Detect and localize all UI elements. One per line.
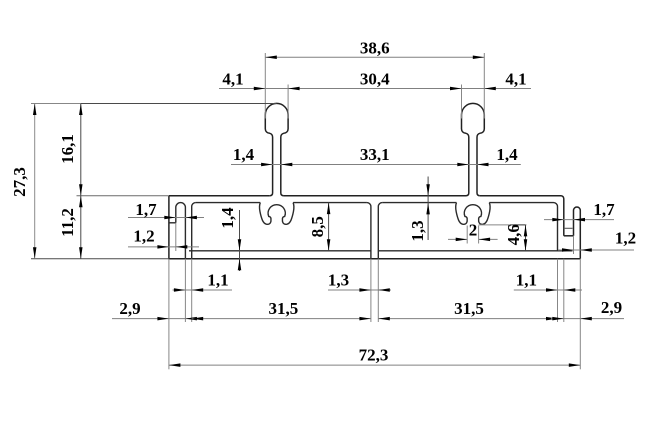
svg-text:1,2: 1,2 [133,227,154,246]
svg-text:27,3: 27,3 [10,167,29,197]
svg-text:4,1: 4,1 [505,69,526,88]
dim 4,1 right [484,69,531,90]
dim 1,4 bottom wall [218,207,241,271]
mid wall exts below [371,259,378,322]
left outer edge ext below [168,259,170,370]
svg-text:1,2: 1,2 [615,229,636,248]
ext at body bottom to left dims [31,258,169,260]
svg-text:1,7: 1,7 [593,200,615,219]
dim 16,1 [58,104,83,196]
dim 1,2 left [128,227,199,249]
right end channel floor [564,235,574,237]
top bulb outer verticals [265,53,484,119]
svg-text:2,9: 2,9 [601,298,622,317]
right outer hook tower [574,207,581,259]
dim 33,1 [273,145,477,166]
svg-text:72,3: 72,3 [359,346,389,365]
dim 1,7 right [544,200,615,221]
cell2 right wall [554,203,558,251]
cell2 ceiling [382,202,553,204]
svg-text:1,1: 1,1 [516,271,537,290]
svg-text:1,1: 1,1 [207,271,228,290]
stem and bulb T1 [265,103,288,195]
dim 1,3 mid [328,271,391,292]
left hook tower [176,203,186,259]
cell1 ceiling [196,202,367,204]
keyhole screw port 2 [456,203,490,225]
bulb inner verticals [288,85,461,119]
svg-text:4,6: 4,6 [504,224,523,245]
dim 31,5 right [378,299,557,320]
svg-text:4,1: 4,1 [222,69,243,88]
horiz ext at bulb top to left dims [31,103,81,105]
profile bottom face [169,258,580,260]
svg-text:1,4: 1,4 [496,145,518,164]
profile left outer edge [168,196,170,259]
svg-text:1,7: 1,7 [135,200,157,219]
dim 30,4 [265,69,484,90]
right 1,2 ext [573,236,575,254]
svg-text:1,4: 1,4 [233,145,255,164]
svg-text:2: 2 [469,220,478,239]
dim 2,9 left [112,299,199,320]
svg-text:31,5: 31,5 [269,299,299,318]
dim 27,3 [10,104,36,259]
stem and bulb T2 [462,103,485,195]
mid wall [367,203,382,259]
svg-text:38,6: 38,6 [360,39,390,58]
svg-text:11,2: 11,2 [58,208,77,237]
keyhole screw port 1 [260,203,294,225]
keyhole2 slot exts for dim 2 [467,226,478,244]
svg-text:16,1: 16,1 [58,134,77,164]
dim 11,2 [58,196,83,259]
cell floors [189,250,573,252]
ext at bulb top level, darker part [81,103,277,105]
right outer edge ext below [579,259,581,370]
svg-text:30,4: 30,4 [360,69,390,88]
svg-text:1,3: 1,3 [408,220,427,241]
dim 1,2 right [558,229,636,252]
dim 72,3 [169,346,580,367]
dim 2,9 right [551,298,624,320]
right end channel web (light) [564,227,573,229]
left wall exts below [185,259,191,322]
dim 4,6 [504,224,527,251]
dim 31,5 left [192,299,371,320]
horiz ext at body top to left dims [77,195,169,197]
dim 8,5 [308,203,330,251]
profile top face segments between stems [169,196,564,236]
svg-text:2,9: 2,9 [119,299,140,318]
left end outer wall top [169,222,176,224]
svg-text:8,5: 8,5 [308,216,327,237]
svg-text:1,3: 1,3 [328,271,349,290]
dim 1,1 right [514,271,582,292]
dim 4,1 left [219,69,265,90]
dim 1,4 right stem [477,145,521,166]
left inner wall [192,203,196,259]
dim 2 keyhole slot [448,220,498,241]
ext from keyhole2 ear to 4,6 dim [479,224,527,226]
svg-text:33,1: 33,1 [360,145,390,164]
dim 1,4 left stem [231,145,273,166]
left 1,2 ext [175,223,177,251]
svg-text:31,5: 31,5 [454,299,484,318]
right wall exts below [558,259,564,322]
dim 1,1 left [173,271,233,292]
dim 1,3 top wall [408,177,430,242]
svg-text:1,4: 1,4 [218,207,237,229]
dim 38,6 [265,39,484,59]
dim 1,7 left [128,200,204,219]
